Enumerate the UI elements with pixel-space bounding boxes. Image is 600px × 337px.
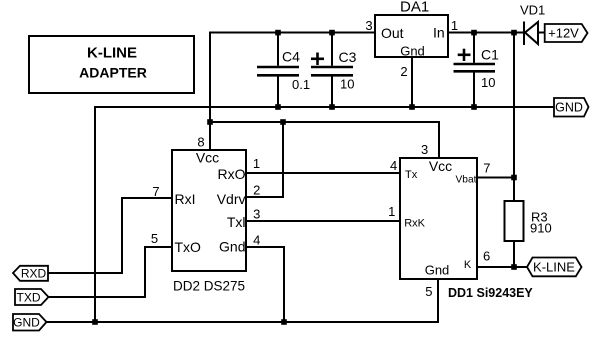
wire +12V top rail to DA1 Out (pin 3) [209,32,375,34]
junction C4 top rail [275,30,281,36]
C1 polarity plus sign [458,49,471,61]
IC DD1 Si9243EY body [400,158,477,279]
svg-text:TxO: TxO [175,239,202,255]
svg-text:5: 5 [425,284,432,299]
wire mid ground line [95,107,554,322]
svg-text:1: 1 [388,204,395,219]
port flag RXD [13,266,48,281]
svg-text:+12V: +12V [548,26,579,41]
wire 5V rail [210,121,439,123]
junction 5V rail Vdrv branch [280,119,286,125]
wire DD1 Vcc pin 3 drop [438,121,440,158]
diode VD1 [524,22,538,46]
voltage regulator DA1 [375,15,448,57]
svg-text:1: 1 [253,156,260,171]
wire RXD to DD2 RxI pin 7 [48,198,172,273]
junction ground rail DD2 pin 4 [281,319,287,325]
node K-LINE flag [527,258,582,277]
svg-text:2: 2 [253,183,260,198]
svg-text:Txl: Txl [227,214,246,230]
svg-text:Vbat: Vbat [456,175,477,186]
junction Vbat R3 branch [511,175,517,181]
svg-text:2: 2 [400,64,407,79]
svg-text:RxO: RxO [218,166,246,182]
svg-text:Out: Out [381,25,404,41]
svg-text:K: K [464,259,472,271]
svg-text:4: 4 [253,233,260,248]
capacitor C1 [454,32,496,108]
wire VD1 anode to +12V flag [538,32,546,34]
svg-text:10: 10 [340,77,354,92]
wire DD2 Vdrv pin 2 to 5V rail [246,122,283,197]
svg-text:1: 1 [451,18,458,33]
title box K-LINE ADAPTER [29,36,194,93]
C3 polarity plus sign [311,53,324,66]
resistor R3 [505,201,524,241]
svg-text:K-LINE: K-LINE [533,260,575,275]
IC DD2 DS275 body [172,150,246,271]
port flag TXD [15,289,49,305]
wire DA1 Gnd pin 2 down to ground line [411,57,413,107]
capacitor C3 [311,32,353,108]
svg-text:8: 8 [197,135,204,150]
svg-text:C3: C3 [339,49,357,65]
svg-text:Gnd: Gnd [425,263,450,278]
svg-text:Vcc: Vcc [429,158,452,174]
svg-text:3: 3 [365,18,372,33]
junction C3 top rail [329,30,335,36]
ground port flag GND right [554,98,589,117]
svg-text:RXD: RXD [21,267,47,281]
svg-text:In: In [433,25,445,41]
junction C1 ground line [471,104,477,110]
junction ground rail left riser [92,319,98,325]
wire DD2 Txl pin 3 to DD1 RxK pin 1 [246,220,400,222]
junction K-LINE node R3 [511,264,517,270]
svg-text:C1: C1 [481,47,499,63]
wire bottom ground rail to DD1 Gnd pin 5 [46,279,438,322]
junction DA1 Gnd ground line [409,104,415,110]
svg-text:7: 7 [152,184,159,199]
wire DD1 Vbat pin 7 [477,177,514,179]
wire DA1 In (pin 1) to VD1 cathode [448,32,524,34]
junction C1 top rail [471,30,477,36]
junction 5V rail pin 8 drop [207,119,213,125]
svg-text:3: 3 [421,142,428,157]
svg-text:RxI: RxI [175,191,196,207]
svg-text:0.1: 0.1 [292,77,310,92]
power port flag +12V [545,24,588,42]
svg-text:RxK: RxK [404,218,425,230]
svg-text:Vdrv: Vdrv [217,191,246,207]
svg-text:6: 6 [483,249,490,264]
svg-text:910: 910 [530,221,552,236]
svg-text:GND: GND [13,316,40,330]
wire DD2 Gnd pin 4 down to ground rail [246,247,284,322]
wire DD2 RxO pin 1 to DD1 Tx pin 4 [246,172,400,174]
svg-text:DD2 DS275: DD2 DS275 [173,279,245,294]
svg-text:Vcc: Vcc [196,150,219,166]
ground port flag GND left [13,314,47,331]
svg-text:7: 7 [483,161,490,176]
svg-text:ADAPTER: ADAPTER [79,65,147,81]
svg-text:4: 4 [390,158,397,173]
svg-text:10: 10 [481,75,495,90]
svg-text:K-LINE: K-LINE [87,45,137,62]
svg-text:C4: C4 [282,49,300,65]
svg-text:Tx: Tx [405,169,418,181]
svg-text:3: 3 [253,207,260,222]
svg-text:DD1 Si9243EY: DD1 Si9243EY [448,286,533,300]
svg-text:GND: GND [555,101,583,115]
junction R3 branch top rail [511,30,517,36]
svg-text:DA1: DA1 [400,0,429,16]
wire DD1 K pin 6 to K-LINE flag [477,266,528,268]
svg-text:Gnd: Gnd [219,239,245,255]
wire vertical drop to DD2 Vcc pin 8 [209,32,211,151]
svg-text:Gnd: Gnd [400,44,425,59]
junction C4 ground line [275,104,281,110]
junction C3 ground line [329,104,335,110]
svg-text:VD1: VD1 [520,3,545,18]
capacitor C4 [257,32,299,108]
wire +12V branch down to R3 [513,33,515,202]
svg-text:TXD: TXD [17,290,41,304]
wire TXD to DD2 TxO pin 5 [48,247,172,297]
wire R3 bottom to K-LINE node [513,241,515,267]
svg-text:5: 5 [151,231,158,246]
